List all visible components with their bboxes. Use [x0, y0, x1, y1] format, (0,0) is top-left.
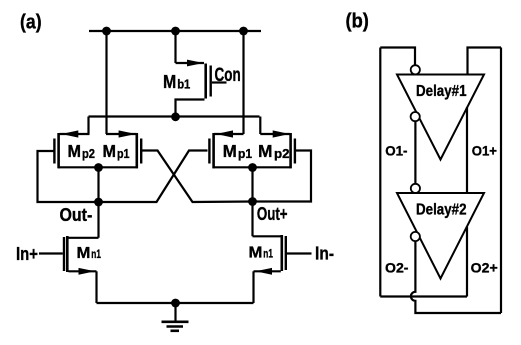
transistor pair right: Mp2 gate bar	[294, 139, 296, 164]
svg-text:M: M	[68, 141, 82, 161]
transistor Mn1 left: source leg	[69, 270, 97, 272]
transistor pair left: Mp1 channel bar (right)	[136, 133, 139, 168]
wire: left pair Mp1 gate, cross-coupling diagonal to Out+	[142, 151, 253, 203]
svg-text:O1-: O1-	[385, 142, 408, 158]
wire: feedback ring left vertical (O2+ back to Delay#1 input)	[379, 48, 381, 297]
wire: left pair shared drain (bottom edge)	[58, 166, 138, 168]
wire: left drain down to Out- node	[97, 168, 99, 238]
transistor pair left: Mp2 gate bar	[53, 139, 55, 164]
node: Delay#2 input bubble	[411, 184, 420, 193]
ground	[174, 303, 176, 321]
node: top rail junction dot left	[102, 27, 111, 36]
transistor pair left: Mp1 gate bar	[140, 139, 142, 164]
svg-text:n1: n1	[91, 247, 101, 261]
wire: Out- horizontal, cross-coupling diagonal to right pair Mp1 gate	[99, 151, 208, 203]
transistor Mn1 right: channel bar	[280, 235, 283, 271]
transistor pair right: Mp1 source arrow	[216, 130, 233, 137]
svg-text:O2+: O2+	[471, 260, 498, 276]
transistor pair right: Mp2 source arrow	[273, 130, 290, 137]
node: Delay#1 input bubble	[411, 65, 420, 74]
transistor pair left: Mp1 source leg	[106, 133, 137, 135]
transistor pair right: Mp1 gate bar	[208, 139, 210, 164]
svg-text:Con: Con	[215, 65, 241, 86]
transistor Mn1 left: drain leg	[68, 237, 99, 239]
wire: Delay#1 right input up and over to ring right vertical	[468, 48, 502, 75]
transistor Mb1: gate lead	[212, 81, 227, 83]
transistor Mn1 left: channel bar	[66, 236, 69, 272]
op-amp U2: Delay#2 buffer triangle	[397, 193, 484, 279]
node: right pair drain junction dot	[248, 163, 257, 172]
transistor Mb1: channel bar	[204, 64, 207, 99]
node B: Out+ junction dot	[248, 197, 257, 206]
wire: Mp2 left gate net to Out- node	[38, 151, 99, 202]
transistor Mn1 left: gate lead from In+	[39, 252, 63, 254]
wire: Mn1 right source down to tail	[252, 271, 254, 303]
node: top rail junction dot middle	[171, 27, 180, 36]
node: Delay#2 inverted output bubble on left edge	[411, 232, 420, 241]
svg-text:p1: p1	[238, 147, 252, 161]
svg-text:(b): (b)	[346, 11, 369, 33]
wire: bottom frame from ring left vertical to O2+ tap	[380, 295, 467, 297]
transistor pair left: Mp1 source arrow	[119, 130, 136, 137]
transistor pair right: Mp1 source leg	[214, 133, 244, 135]
wire: from top rail down to left pair Mp1 source	[105, 31, 107, 134]
svg-text:p2: p2	[274, 147, 290, 161]
svg-text:p2: p2	[82, 147, 95, 161]
svg-text:M: M	[258, 141, 273, 161]
svg-text:b1: b1	[177, 77, 190, 92]
transistor Mn1 right: source arrow	[256, 268, 273, 275]
wire: right pair shared drain (bottom edge)	[213, 166, 292, 168]
wire: Mp2 right gate net to Out+ node	[253, 151, 312, 202]
wire: bias rail (second horizontal rail)	[89, 115, 260, 117]
wire: from top rail down to Mb1 drain	[174, 31, 176, 63]
node: tail junction dot	[171, 299, 180, 308]
transistor Mn1 left: source arrow	[79, 268, 96, 275]
wire: O1+ from Delay#1 right edge down to Delay#2 input	[466, 107, 468, 193]
node: top rail junction dot right	[239, 27, 248, 36]
wire: bias rail left bend down to left pair Mp2 source	[87, 117, 89, 135]
transistor pair right: Mp2 channel bar (right)	[289, 133, 292, 168]
svg-text:p1: p1	[117, 147, 130, 161]
svg-text:In-: In-	[315, 244, 334, 264]
transistor Mb1: drain leg	[176, 62, 205, 64]
transistor pair left: Mp2 channel bar (left)	[57, 133, 60, 168]
svg-text:Delay#1: Delay#1	[416, 83, 467, 100]
transistor Mn1 right: gate lead from In-	[287, 252, 312, 254]
transistor Mb1: gate bar	[209, 66, 211, 97]
node: Delay#1 inverted output bubble on left edge	[411, 112, 420, 121]
transistor Mn1 right: drain leg	[253, 235, 282, 237]
transistor pair right: Mp2 source leg	[260, 133, 290, 135]
transistor Mb1: source leg	[176, 100, 205, 118]
svg-text:O2-: O2-	[385, 260, 409, 276]
wire: tail rail	[97, 302, 254, 304]
svg-text:M: M	[249, 245, 263, 262]
wire: Mn1 left source down to tail	[95, 271, 97, 303]
svg-text:M: M	[103, 141, 117, 161]
transistor Mn1 right: source leg	[254, 270, 281, 272]
node: left pair drain junction dot	[94, 163, 103, 172]
wire: VDD top rail	[89, 30, 261, 32]
svg-text:In+: In+	[16, 244, 38, 264]
transistor pair left: Mp2 source leg	[60, 133, 90, 135]
svg-text:n1: n1	[263, 247, 273, 261]
svg-text:Out+: Out+	[257, 204, 288, 224]
svg-text:Out-: Out-	[60, 205, 93, 225]
svg-text:Delay#2: Delay#2	[416, 202, 467, 219]
transistor Mn1 right: gate bar	[285, 236, 287, 270]
transistor Mn1 left: gate bar	[63, 237, 65, 271]
op-amp U1: Delay#1 buffer triangle	[397, 75, 484, 160]
wire: O2+ from Delay#2 right edge down to bottom frame	[466, 227, 468, 297]
wire: O2- down from Delay#2 with crossover hop	[411, 241, 501, 313]
wire: top-left staple into Delay#1 inverting input	[380, 48, 415, 66]
wire: O1- from Delay#1 output down to Delay#2 input	[414, 121, 416, 184]
wire: feedback ring right vertical (O2- up to Delay#1 input)	[500, 48, 502, 314]
wire: from top rail down to right pair Mp1 source	[242, 31, 244, 134]
wire: right drain down to Out+ node	[251, 168, 253, 237]
svg-text:(a): (a)	[20, 12, 42, 34]
wire: bias rail right bend down to right pair Mp2 source	[259, 117, 261, 135]
svg-text:M: M	[163, 72, 176, 92]
node: Mb1 source junction dot on bias rail	[171, 112, 180, 121]
transistor pair left: Mp2 source arrow	[62, 130, 79, 137]
transistor Mb1: source arrow pointing into channel	[187, 60, 204, 67]
svg-text:M: M	[77, 245, 91, 262]
svg-text:O1+: O1+	[472, 142, 497, 158]
transistor pair right: Mp1 channel bar (left)	[212, 133, 215, 168]
node A: Out- junction dot	[94, 198, 103, 207]
svg-text:M: M	[223, 141, 237, 161]
